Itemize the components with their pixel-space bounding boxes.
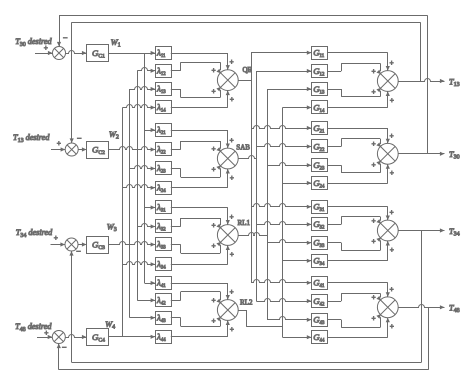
svg-text:T34 desired: T34 desired (16, 228, 53, 239)
wire W2 tap to lambda42 (137, 298, 155, 302)
summing junction O2 (377, 143, 398, 164)
block G43 (312, 314, 328, 327)
svg-text:W3: W3 (107, 223, 117, 234)
wire u2 crossbar vertical (256, 71, 258, 301)
block lambda31 (156, 201, 172, 214)
block lambda42 (156, 294, 172, 307)
svg-text:+: + (390, 132, 394, 140)
wire S4 to Gc4 (65, 335, 86, 340)
wire M2 row3 to lower-left (171, 165, 221, 177)
svg-text:G11: G11 (313, 48, 325, 60)
wire u3 tap to G23 (267, 163, 311, 168)
wire M3 output (238, 233, 267, 236)
wire W4 tap to lambda24 (123, 185, 156, 190)
summing junction M4 (217, 300, 238, 321)
wire M3 row3 to lower-left (171, 242, 221, 254)
wire M2 row4 to bottom (171, 169, 234, 188)
svg-text:λ23: λ23 (156, 163, 166, 175)
svg-text:RL1: RL1 (238, 219, 251, 227)
svg-text:+: + (372, 161, 376, 169)
svg-text:λ41: λ41 (156, 278, 166, 290)
wire u4 tap to G24 (283, 181, 312, 185)
wire W1 tap to lambda21 (145, 128, 156, 132)
wire output line 3 (398, 228, 444, 232)
wire M3 row1 to top (171, 208, 234, 225)
svg-text:G32: G32 (313, 219, 325, 231)
svg-text:G44: G44 (313, 332, 325, 344)
node output label T34 (449, 227, 460, 238)
wire M1 output (238, 80, 251, 82)
wire W4 tap to lambda14 (123, 105, 156, 110)
node W1 label (111, 38, 121, 49)
svg-text:+: + (57, 140, 61, 148)
svg-text:G31: G31 (313, 202, 325, 214)
wire S2 to Gc2 (78, 147, 86, 151)
svg-text:+: + (390, 169, 394, 177)
wire u3 tap to G43 (267, 317, 311, 322)
wire u1 tap to G31 (251, 204, 311, 209)
summing junction S3 (65, 238, 78, 251)
wire u3 tap to G33 (267, 240, 311, 245)
svg-text:+: + (372, 294, 376, 302)
node label SAB (236, 143, 250, 151)
node output label T48 (449, 304, 460, 315)
svg-text:λ24: λ24 (156, 182, 166, 194)
node input label T34 desired (16, 228, 53, 239)
wire S1 to Gc1 (66, 51, 87, 56)
wire O1 row2 to upper-left (327, 63, 381, 75)
svg-text:+: + (212, 221, 216, 229)
block G31 (312, 201, 328, 214)
summing junction M1 (217, 70, 238, 91)
svg-text:+: + (390, 246, 394, 254)
wire W4 run to lambda44 (109, 335, 155, 339)
wire O2 row1 to top (327, 128, 394, 143)
svg-text:G21: G21 (313, 123, 325, 135)
svg-text:GC1: GC1 (92, 48, 105, 60)
svg-text:W4: W4 (105, 320, 115, 331)
svg-text:+: + (54, 234, 58, 242)
block lambda12 (156, 65, 172, 78)
svg-text:λ31: λ31 (156, 202, 166, 214)
wire M4 output (238, 310, 282, 327)
wire W2 bus vertical (137, 71, 139, 300)
block lambda44 (156, 331, 172, 344)
wire W1 run to lambda11 (109, 51, 155, 55)
wire M4 row3 to lower-left (171, 317, 221, 327)
svg-text:RL2: RL2 (240, 298, 253, 306)
node input label T13 desired (13, 133, 50, 144)
svg-text:−: − (63, 33, 68, 42)
svg-text:λ22: λ22 (156, 144, 166, 156)
svg-text:+: + (230, 213, 234, 221)
svg-text:SAB: SAB (236, 143, 250, 151)
svg-text:G13: G13 (313, 84, 325, 96)
svg-text:−: − (77, 134, 82, 143)
svg-text:+: + (212, 145, 216, 153)
wire u4 crossbar vertical (282, 108, 284, 338)
svg-text:λ44: λ44 (156, 331, 166, 343)
controller Gc1 (87, 45, 109, 62)
wire W1 bus vertical (144, 53, 146, 283)
block G44 (312, 331, 328, 344)
wire feedback T34 inner bottom rail (69, 231, 421, 363)
wire u1 tap to G41 (251, 280, 311, 285)
wire feedback T13 inner top rail (70, 22, 421, 143)
svg-text:+: + (372, 315, 376, 323)
svg-text:G42: G42 (313, 296, 325, 308)
svg-text:+: + (44, 44, 48, 52)
wire O2 row3 to lower-left (327, 161, 381, 173)
svg-text:−: − (62, 343, 67, 352)
wire M2 row2 to upper-left (171, 141, 221, 153)
wire u4 tap to G14 (283, 105, 312, 109)
wire O3 row1 to top (327, 207, 394, 221)
wire O3 row2 to upper-left (327, 217, 381, 225)
node input label T30 desired (15, 37, 52, 48)
wire u4 tap to G34 (283, 259, 312, 263)
block lambda34 (156, 258, 172, 271)
summing junction S4 (52, 331, 65, 344)
block lambda21 (156, 124, 172, 137)
wire u2 tap to G22 (256, 144, 311, 149)
wire output line 2 (398, 152, 444, 156)
wire S3 to Gc3 (78, 242, 87, 246)
summing junction M2 (217, 148, 238, 169)
node W4 label (105, 320, 115, 331)
summing junction S1 (53, 47, 66, 60)
svg-text:+: + (212, 317, 216, 325)
block lambda13 (156, 83, 172, 96)
wire M2 row1 to top (171, 130, 234, 148)
svg-text:λ21: λ21 (156, 125, 166, 137)
wire M4 row4 to bottom (171, 320, 234, 336)
svg-text:T48: T48 (449, 304, 460, 315)
summing junction O4 (377, 297, 398, 318)
wire u3 crossbar vertical (267, 89, 269, 320)
node label RL2 (240, 298, 253, 306)
svg-text:T30: T30 (449, 150, 460, 161)
node output label T13 (449, 77, 460, 88)
wire W3 tap to lambda23 (130, 166, 155, 171)
svg-text:+: + (390, 96, 394, 104)
wire u3 tap to G13 (267, 87, 311, 91)
svg-text:GC4: GC4 (92, 332, 105, 344)
svg-text:+: + (212, 166, 216, 174)
svg-text:λ32: λ32 (156, 221, 166, 233)
wire O1 row3 to lower-left (327, 88, 381, 97)
svg-text:G43: G43 (313, 315, 325, 327)
wire W2 tap to lambda12 (137, 68, 155, 73)
svg-text:+: + (372, 88, 376, 96)
wire O4 row3 to lower-left (327, 314, 381, 328)
svg-text:λ13: λ13 (156, 84, 166, 96)
wire O1 row4 to bottom (327, 91, 394, 107)
svg-text:+: + (230, 325, 234, 333)
wire M3 row2 to upper-left (171, 218, 221, 229)
wire input stub 2 (51, 140, 65, 152)
block G14 (312, 101, 328, 114)
svg-text:λ33: λ33 (156, 239, 166, 251)
block G12 (312, 65, 328, 78)
summing junction S2 (65, 143, 78, 156)
wire W3 bus vertical (129, 89, 131, 318)
block G21 (312, 122, 328, 135)
wire input stub 4 (37, 329, 52, 339)
block G33 (312, 237, 328, 250)
block G24 (312, 177, 328, 190)
controller Gc2 (87, 142, 109, 159)
svg-text:+: + (372, 140, 376, 148)
block lambda43 (156, 312, 172, 325)
wire M1 row3 to lower-left (171, 87, 221, 98)
node W3 label (107, 223, 117, 234)
svg-text:G24: G24 (313, 178, 325, 190)
wire M1 row2 to upper-left (171, 62, 221, 74)
svg-text:+: + (390, 209, 394, 217)
svg-text:G14: G14 (313, 102, 325, 114)
svg-text:+: + (230, 95, 234, 103)
summing junction O1 (377, 71, 398, 92)
wire W1 tap to lambda41 (145, 281, 156, 285)
svg-text:G34: G34 (313, 256, 325, 268)
svg-text:G23: G23 (313, 160, 325, 172)
svg-text:QE: QE (243, 66, 252, 74)
block G23 (312, 159, 328, 172)
svg-text:T34: T34 (449, 227, 460, 238)
svg-text:W1: W1 (111, 38, 121, 49)
svg-text:+: + (372, 238, 376, 246)
wire O4 row1 to top (327, 283, 394, 297)
svg-text:+: + (44, 329, 48, 337)
node label QE (243, 66, 252, 74)
svg-text:T13: T13 (449, 77, 460, 88)
wire W2 tap to lambda32 (137, 224, 155, 229)
svg-text:λ12: λ12 (156, 65, 166, 77)
svg-text:G12: G12 (313, 66, 325, 78)
wire u1 tap to G11 (251, 51, 311, 55)
svg-text:G33: G33 (313, 238, 325, 250)
svg-text:GC2: GC2 (92, 145, 105, 157)
svg-text:+: + (212, 87, 216, 95)
controller Gc3 (87, 237, 109, 254)
svg-text:+: + (230, 58, 234, 66)
wire feedback T48 outer bottom rail (57, 307, 429, 370)
svg-text:λ34: λ34 (156, 259, 166, 271)
svg-text:+: + (230, 288, 234, 296)
wire input stub 3 (51, 234, 66, 246)
block G13 (312, 83, 328, 96)
svg-text:+: + (230, 250, 234, 258)
wire M1 row4 to bottom (171, 91, 234, 108)
block lambda14 (156, 101, 172, 114)
block lambda23 (156, 162, 172, 175)
wire u1 tap to G21 (251, 126, 311, 131)
svg-text:+: + (372, 67, 376, 75)
wire W4 bus vertical (122, 108, 124, 337)
wire O4 row4 to bottom (327, 318, 394, 338)
svg-text:T13 desired: T13 desired (13, 133, 50, 144)
block lambda41 (156, 277, 172, 290)
block lambda24 (156, 182, 172, 195)
wire M4 row2 to upper-left (171, 292, 221, 305)
wire M1 row1 to top (171, 53, 234, 70)
wire u2 tap to G12 (256, 69, 311, 73)
wire O1 row1 to top (327, 53, 394, 71)
wire u2 tap to G42 (256, 299, 311, 304)
wire O3 row4 to bottom (327, 241, 394, 261)
svg-text:W2: W2 (109, 130, 119, 141)
wire W3 run to lambda33 (109, 242, 155, 247)
svg-text:G41: G41 (313, 278, 325, 290)
node input label T48 desired (15, 322, 52, 333)
wire W2 run to lambda22 (109, 147, 155, 152)
svg-text:+: + (212, 242, 216, 250)
svg-text:+: + (372, 217, 376, 225)
wire u2 tap to G32 (256, 222, 311, 227)
svg-text:GC3: GC3 (92, 240, 105, 252)
wire u4 tap to G44 (283, 335, 312, 339)
svg-text:λ43: λ43 (156, 312, 166, 324)
node W2 label (109, 130, 119, 141)
wire O2 row4 to bottom (327, 164, 394, 183)
controller Gc4 (87, 329, 109, 346)
summing junction O3 (377, 220, 398, 241)
wire input stub 1 (35, 44, 53, 55)
wire output line 1 (398, 79, 444, 84)
wire M2 output (238, 156, 256, 159)
wire output line 4 (398, 305, 444, 310)
wire W3 tap to lambda13 (130, 87, 155, 92)
wire W1 tap to lambda31 (145, 205, 156, 209)
wire u1 crossbar vertical (251, 53, 253, 283)
svg-text:λ42: λ42 (156, 295, 166, 307)
block G11 (312, 47, 328, 60)
svg-text:+: + (230, 174, 234, 182)
node label RL1 (238, 219, 251, 227)
wire W4 tap to lambda34 (123, 262, 156, 267)
svg-text:+: + (390, 285, 394, 293)
block G22 (312, 140, 328, 153)
wire O2 row2 to upper-left (327, 139, 381, 149)
svg-text:λ14: λ14 (156, 102, 166, 114)
svg-text:+: + (390, 59, 394, 67)
block lambda11 (156, 47, 172, 60)
svg-text:+: + (212, 67, 216, 75)
wire feedback T30 outer top rail (57, 15, 428, 154)
wire M4 row1 to top (171, 283, 234, 300)
block lambda33 (156, 238, 172, 251)
block G32 (312, 218, 328, 231)
wire M3 row4 to bottom (171, 245, 234, 264)
block G34 (312, 255, 328, 268)
node output label T30 (449, 150, 460, 161)
svg-text:G22: G22 (313, 141, 325, 153)
svg-text:+: + (390, 323, 394, 331)
block G41 (312, 277, 328, 290)
wire O4 row2 to upper-left (327, 293, 381, 301)
block G42 (312, 295, 328, 308)
svg-text:+: + (212, 296, 216, 304)
wire O3 row3 to lower-left (327, 237, 381, 250)
wire W3 tap to lambda43 (130, 316, 155, 320)
summing junction M3 (217, 225, 238, 246)
svg-text:λ11: λ11 (156, 48, 166, 60)
block lambda32 (156, 220, 172, 233)
svg-text:−: − (76, 247, 81, 256)
block lambda22 (156, 143, 172, 156)
svg-text:+: + (230, 137, 234, 145)
